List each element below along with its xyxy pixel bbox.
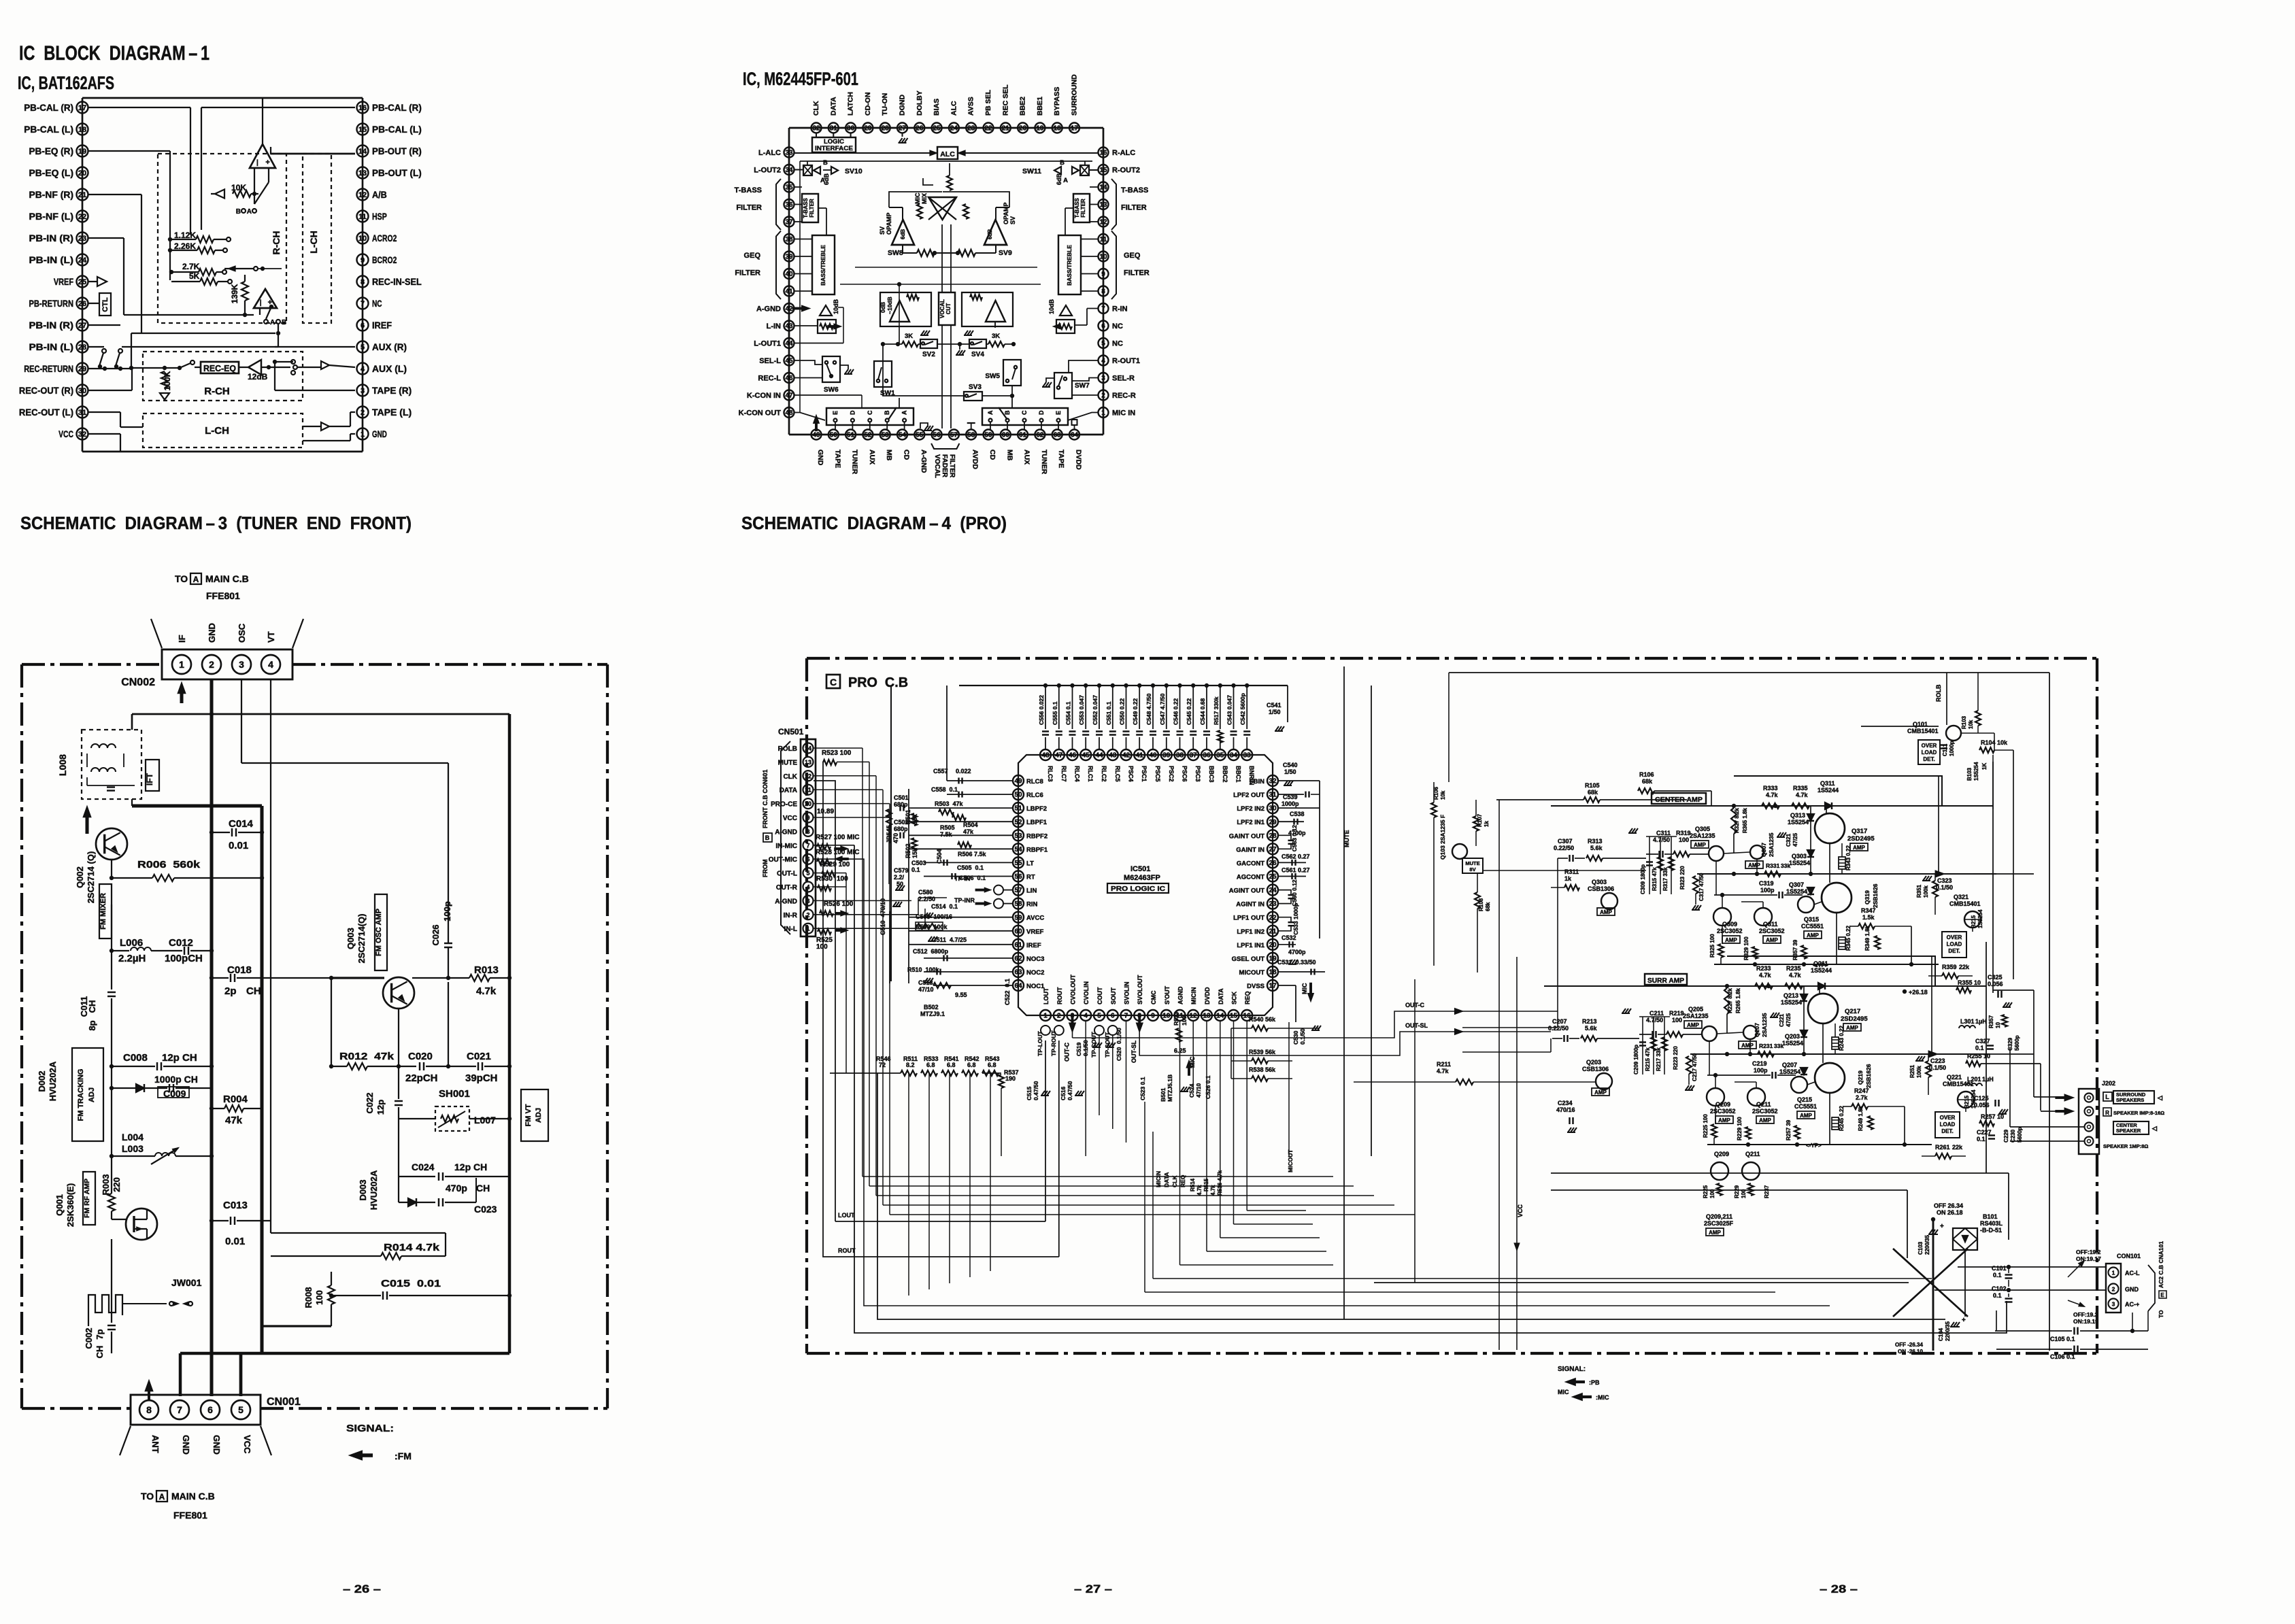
svg-text:5: 5 bbox=[1101, 340, 1105, 348]
svg-text:T-BASS: T-BASS bbox=[803, 198, 809, 218]
svg-text:B: B bbox=[236, 208, 241, 216]
svg-text:8: 8 bbox=[361, 278, 365, 286]
svg-text:R257 39: R257 39 bbox=[1786, 1119, 1792, 1140]
svg-text:FILTER: FILTER bbox=[809, 199, 815, 218]
svg-text:Q317: Q317 bbox=[1852, 828, 1867, 835]
svg-text:NC: NC bbox=[1112, 340, 1123, 348]
svg-text:IC BLOCK DIAGRAM – 1: IC BLOCK DIAGRAM – 1 bbox=[19, 42, 210, 65]
svg-text:R506 7.5k: R506 7.5k bbox=[958, 851, 987, 858]
svg-text:C538: C538 bbox=[1290, 811, 1305, 817]
svg-text:BBC1: BBC1 bbox=[1235, 766, 1242, 783]
svg-text:HVU202A: HVU202A bbox=[48, 1061, 58, 1101]
svg-text:52: 52 bbox=[864, 432, 872, 439]
svg-text:R514: R514 bbox=[1190, 1178, 1196, 1191]
svg-text:25: 25 bbox=[933, 125, 941, 133]
svg-text:R: R bbox=[2105, 1110, 2109, 1116]
svg-text:8p: 8p bbox=[87, 1020, 97, 1030]
svg-text:BBE1: BBE1 bbox=[1036, 97, 1044, 116]
svg-text:C311: C311 bbox=[1656, 830, 1671, 836]
svg-text:CSB1306: CSB1306 bbox=[1588, 885, 1614, 892]
svg-text:2SC3025F: 2SC3025F bbox=[1704, 1220, 1734, 1227]
svg-text:VCC: VCC bbox=[58, 428, 73, 439]
svg-text:IN-R: IN-R bbox=[783, 912, 797, 919]
svg-text:24: 24 bbox=[78, 256, 87, 265]
svg-text:19: 19 bbox=[78, 148, 86, 156]
svg-text:Q303: Q303 bbox=[1792, 853, 1807, 860]
svg-text:LPF2 OUT: LPF2 OUT bbox=[1233, 792, 1264, 799]
svg-text:DOLBY: DOLBY bbox=[916, 90, 924, 116]
svg-text:49: 49 bbox=[812, 432, 820, 439]
svg-text:49: 49 bbox=[1014, 778, 1022, 785]
svg-text:K-CON IN: K-CON IN bbox=[747, 392, 781, 400]
svg-text:VCC: VCC bbox=[1517, 1204, 1524, 1217]
svg-text:29: 29 bbox=[1269, 819, 1277, 826]
svg-text:PB-RETURN: PB-RETURN bbox=[29, 298, 73, 309]
svg-text:29: 29 bbox=[78, 365, 86, 373]
svg-text:40: 40 bbox=[1149, 752, 1157, 760]
svg-text:58: 58 bbox=[1014, 900, 1022, 908]
svg-text:R313: R313 bbox=[1588, 838, 1603, 845]
svg-text:20: 20 bbox=[78, 169, 86, 177]
svg-text:68k: 68k bbox=[1485, 902, 1491, 911]
svg-text:SVOLOUT: SVOLOUT bbox=[1137, 975, 1143, 1004]
svg-text:17: 17 bbox=[1269, 983, 1277, 990]
svg-text:5: 5 bbox=[238, 1404, 244, 1415]
svg-text:ADJ: ADJ bbox=[88, 1087, 96, 1102]
svg-text:SPEAKER 1MP:8Ω: SPEAKER 1MP:8Ω bbox=[2103, 1143, 2148, 1149]
svg-text:TAPE (R): TAPE (R) bbox=[372, 385, 412, 396]
svg-text:DET.: DET. bbox=[1941, 1128, 1953, 1134]
svg-text:50: 50 bbox=[897, 881, 903, 887]
svg-text:L: L bbox=[2105, 1094, 2109, 1100]
svg-text:R357 39: R357 39 bbox=[1792, 939, 1798, 960]
svg-text:1K: 1K bbox=[1981, 763, 1988, 770]
svg-text:Q209: Q209 bbox=[1714, 1151, 1729, 1157]
svg-text:LOUT: LOUT bbox=[838, 1212, 855, 1219]
svg-text:B215: B215 bbox=[1971, 915, 1977, 928]
svg-text:LPF1 IN2: LPF1 IN2 bbox=[1237, 928, 1264, 936]
svg-text:CON101: CON101 bbox=[2117, 1253, 2141, 1259]
svg-text:TP-ROUT: TP-ROUT bbox=[1050, 1030, 1057, 1056]
svg-text:5.6k: 5.6k bbox=[1585, 1025, 1598, 1032]
svg-text:Q103 2SA1235 F: Q103 2SA1235 F bbox=[1439, 815, 1446, 860]
svg-text:0.47/50: 0.47/50 bbox=[1033, 1081, 1039, 1100]
svg-text:PB-IN (L): PB-IN (L) bbox=[29, 254, 73, 265]
svg-text:RBPF2: RBPF2 bbox=[1026, 832, 1048, 840]
svg-text:– 28 –: – 28 – bbox=[1820, 1583, 1858, 1595]
svg-text:A: A bbox=[901, 410, 908, 415]
svg-text:C512 6800p: C512 6800p bbox=[913, 948, 949, 955]
svg-text:+26.18: +26.18 bbox=[1909, 989, 1928, 996]
svg-text:C230: C230 bbox=[2010, 1129, 2016, 1143]
svg-text:L-IN: L-IN bbox=[767, 322, 781, 331]
svg-text:CSB1306: CSB1306 bbox=[1582, 1066, 1609, 1072]
svg-text:C553 0.047: C553 0.047 bbox=[1078, 695, 1085, 725]
svg-text:CMB15401: CMB15401 bbox=[1907, 728, 1939, 734]
svg-text:C011: C011 bbox=[79, 996, 89, 1017]
svg-text:R325 100: R325 100 bbox=[1709, 934, 1715, 958]
svg-text:RS403L: RS403L bbox=[1980, 1220, 2003, 1227]
svg-text:35: 35 bbox=[785, 184, 793, 192]
svg-text:22: 22 bbox=[78, 213, 86, 221]
svg-text:C319: C319 bbox=[1759, 880, 1774, 887]
svg-text:57: 57 bbox=[950, 432, 958, 439]
svg-text:13: 13 bbox=[1203, 1013, 1211, 1020]
svg-text:C554 0.1: C554 0.1 bbox=[1065, 701, 1072, 725]
svg-text:6.8: 6.8 bbox=[947, 1062, 956, 1068]
svg-text:R359: R359 bbox=[1942, 964, 1957, 970]
svg-text:48: 48 bbox=[1041, 752, 1050, 760]
svg-text:AMP: AMP bbox=[1718, 1117, 1730, 1123]
svg-text:C106 0.1: C106 0.1 bbox=[2050, 1353, 2075, 1360]
svg-text:C014: C014 bbox=[229, 818, 254, 830]
svg-text:B: B bbox=[282, 319, 286, 326]
svg-text:L007: L007 bbox=[474, 1115, 496, 1126]
svg-text:Q321: Q321 bbox=[1954, 894, 1969, 900]
svg-text:R245 0.22: R245 0.22 bbox=[1839, 1106, 1845, 1131]
svg-text:100k: 100k bbox=[1916, 1066, 1922, 1078]
svg-text:10: 10 bbox=[1995, 1022, 2001, 1028]
svg-text:C505 0.1: C505 0.1 bbox=[957, 864, 984, 871]
svg-text:PSC6: PSC6 bbox=[1182, 766, 1188, 782]
svg-text:12: 12 bbox=[1099, 219, 1107, 226]
svg-text:GEQ: GEQ bbox=[744, 252, 761, 260]
svg-text:C307: C307 bbox=[1558, 838, 1573, 845]
svg-text:26: 26 bbox=[916, 125, 924, 133]
svg-text:0dB: 0dB bbox=[880, 302, 886, 313]
svg-text:63: 63 bbox=[1014, 969, 1022, 977]
svg-text:C556 0.022: C556 0.022 bbox=[1038, 695, 1045, 725]
svg-text:AVDD: AVDD bbox=[971, 450, 979, 469]
svg-text:ALC: ALC bbox=[950, 101, 958, 116]
svg-text:C008: C008 bbox=[123, 1052, 148, 1064]
svg-text:C317 47/50: C317 47/50 bbox=[1698, 873, 1705, 901]
svg-text:6dB: 6dB bbox=[987, 229, 993, 239]
svg-text:31: 31 bbox=[1269, 792, 1277, 799]
svg-text:GAINT OUT: GAINT OUT bbox=[1229, 832, 1264, 840]
svg-text:FM RF AMP: FM RF AMP bbox=[83, 1179, 91, 1218]
svg-text:6dB: 6dB bbox=[900, 229, 906, 239]
svg-text:6: 6 bbox=[1111, 1013, 1115, 1020]
svg-text:BIAS: BIAS bbox=[933, 99, 941, 116]
svg-text:MB: MB bbox=[1005, 450, 1014, 461]
svg-text:LIN: LIN bbox=[1026, 887, 1037, 895]
svg-text:C101: C101 bbox=[1992, 1265, 2007, 1272]
svg-text:HSP: HSP bbox=[372, 211, 387, 222]
svg-text:12: 12 bbox=[805, 773, 811, 779]
svg-text:FADER: FADER bbox=[941, 454, 948, 478]
svg-text:R108: R108 bbox=[1478, 898, 1484, 911]
svg-text:PRO-CE: PRO-CE bbox=[771, 801, 797, 809]
svg-text:31: 31 bbox=[78, 409, 86, 417]
svg-text:SW6: SW6 bbox=[824, 386, 839, 394]
svg-text:|: | bbox=[256, 159, 258, 167]
svg-text:100k: 100k bbox=[1923, 885, 1929, 898]
svg-text:C217 47/50: C217 47/50 bbox=[1692, 1053, 1698, 1081]
svg-text:C514 0.1: C514 0.1 bbox=[931, 903, 958, 910]
svg-text:A: A bbox=[820, 177, 825, 184]
svg-text:Q203: Q203 bbox=[1785, 1033, 1800, 1040]
svg-text:R505: R505 bbox=[940, 824, 955, 831]
svg-text:R351: R351 bbox=[1916, 884, 1922, 898]
svg-text:R233: R233 bbox=[1756, 965, 1771, 972]
svg-text:C219: C219 bbox=[1752, 1060, 1767, 1067]
svg-text:1S5244: 1S5244 bbox=[1817, 787, 1839, 794]
svg-text:33: 33 bbox=[785, 150, 793, 157]
svg-text:17: 17 bbox=[1071, 125, 1079, 133]
svg-text:SV3: SV3 bbox=[969, 384, 982, 391]
svg-text:GEQ: GEQ bbox=[1124, 252, 1141, 260]
svg-text:R502: R502 bbox=[905, 843, 911, 858]
svg-text:IN-MIC: IN-MIC bbox=[775, 843, 797, 850]
svg-text:CD: CD bbox=[988, 450, 996, 460]
svg-text:C541: C541 bbox=[1267, 702, 1281, 709]
svg-text:Q221: Q221 bbox=[1947, 1074, 1962, 1081]
svg-text:SW8: SW8 bbox=[888, 249, 903, 257]
svg-text:ON 26.18: ON 26.18 bbox=[1937, 1209, 1963, 1216]
svg-text:8V: 8V bbox=[1469, 866, 1475, 873]
svg-text:68k: 68k bbox=[1588, 789, 1598, 796]
svg-text:MIC: MIC bbox=[914, 192, 921, 204]
svg-text:CH: CH bbox=[95, 1346, 105, 1359]
svg-text:C223: C223 bbox=[1930, 1058, 1945, 1064]
svg-text:B215: B215 bbox=[1964, 1095, 1970, 1109]
svg-text:IREF: IREF bbox=[1026, 942, 1041, 949]
svg-text:45: 45 bbox=[785, 358, 793, 365]
svg-text:Q003: Q003 bbox=[346, 928, 356, 949]
svg-text:SURROUND: SURROUND bbox=[1071, 74, 1079, 116]
svg-text:12: 12 bbox=[1190, 1013, 1198, 1020]
svg-text:A: A bbox=[270, 319, 275, 326]
svg-text:2p: 2p bbox=[224, 985, 237, 997]
svg-text:A-GND: A-GND bbox=[920, 450, 928, 473]
svg-text:2: 2 bbox=[361, 409, 365, 417]
svg-text:0.056: 0.056 bbox=[1988, 981, 2003, 987]
svg-text:PB-CAL (L): PB-CAL (L) bbox=[24, 124, 73, 135]
svg-text:RT: RT bbox=[1026, 874, 1035, 881]
svg-text:D003: D003 bbox=[358, 1179, 368, 1200]
svg-text:~10dB: ~10dB bbox=[886, 297, 893, 314]
svg-text:AMP: AMP bbox=[1687, 1022, 1699, 1028]
svg-text:A/B: A/B bbox=[372, 189, 387, 200]
svg-text:ROUT: ROUT bbox=[838, 1247, 856, 1254]
svg-text:C543 0.047: C543 0.047 bbox=[1226, 695, 1233, 725]
svg-text:33: 33 bbox=[1243, 752, 1252, 760]
svg-text:2200/35: 2200/35 bbox=[1924, 1235, 1930, 1255]
svg-text:DVSS: DVSS bbox=[1247, 983, 1264, 990]
svg-text:47k: 47k bbox=[225, 1115, 243, 1126]
svg-text:57: 57 bbox=[1014, 887, 1022, 894]
svg-text:C552 0.047: C552 0.047 bbox=[1092, 695, 1099, 725]
svg-text:VOCAL: VOCAL bbox=[933, 454, 941, 478]
svg-text:7: 7 bbox=[361, 300, 365, 308]
svg-text:PB-IN (L): PB-IN (L) bbox=[29, 341, 73, 352]
svg-text:C524: C524 bbox=[1188, 1083, 1195, 1098]
svg-text:33k: 33k bbox=[1774, 1043, 1783, 1049]
svg-text:PB-IN (R): PB-IN (R) bbox=[29, 320, 73, 331]
svg-text:6dB: 6dB bbox=[1056, 173, 1062, 185]
svg-text:PB-EQ (R): PB-EQ (R) bbox=[29, 146, 73, 156]
svg-text:R527 100 MIC: R527 100 MIC bbox=[816, 834, 859, 841]
svg-text:60: 60 bbox=[1002, 432, 1010, 439]
svg-text:R343 0.22: R343 0.22 bbox=[1845, 845, 1852, 870]
svg-text:Q002: Q002 bbox=[75, 866, 85, 888]
svg-text:9: 9 bbox=[361, 256, 365, 265]
svg-text:4.7k: 4.7k bbox=[1759, 972, 1772, 979]
svg-text:SCHEMATIC DIAGRAM – 4 (PRO): SCHEMATIC DIAGRAM – 4 (PRO) bbox=[741, 513, 1007, 533]
svg-text:C502: C502 bbox=[894, 819, 909, 826]
svg-text:R365 1.8k: R365 1.8k bbox=[1742, 808, 1748, 833]
svg-text:2SA1235: 2SA1235 bbox=[1690, 832, 1715, 839]
svg-text:MAIN C.B: MAIN C.B bbox=[171, 1491, 215, 1502]
svg-text:LT: LT bbox=[1026, 860, 1034, 867]
svg-text:2SB1626: 2SB1626 bbox=[1865, 1064, 1872, 1088]
svg-text:C519: C519 bbox=[1075, 1042, 1082, 1056]
svg-text:VREF: VREF bbox=[54, 276, 73, 287]
svg-text:21: 21 bbox=[1269, 928, 1277, 935]
svg-text:T-BASS: T-BASS bbox=[1121, 186, 1148, 194]
svg-text:SV: SV bbox=[879, 226, 886, 235]
svg-text:R-CH: R-CH bbox=[271, 231, 282, 255]
svg-text:28: 28 bbox=[78, 343, 86, 352]
svg-text:0.1: 0.1 bbox=[1993, 1272, 2002, 1279]
svg-text:1S5254: 1S5254 bbox=[1786, 888, 1807, 895]
svg-text:L008: L008 bbox=[57, 754, 68, 776]
svg-text:GND: GND bbox=[181, 1435, 191, 1455]
svg-text:15: 15 bbox=[358, 126, 367, 134]
svg-text:4: 4 bbox=[1084, 1013, 1088, 1020]
svg-text:C549 0.22: C549 0.22 bbox=[1132, 698, 1139, 725]
svg-text:1S5254: 1S5254 bbox=[1973, 762, 1979, 781]
svg-text:FM MIXER: FM MIXER bbox=[99, 893, 107, 930]
svg-text:OUT-R: OUT-R bbox=[776, 884, 798, 892]
svg-text:16: 16 bbox=[358, 104, 367, 112]
svg-text:15: 15 bbox=[1230, 1013, 1238, 1020]
svg-text:CC5551: CC5551 bbox=[1801, 923, 1824, 930]
svg-text:IF: IF bbox=[177, 635, 187, 643]
svg-text:OFF -26.34: OFF -26.34 bbox=[1895, 1342, 1923, 1348]
svg-text:C551 0.1: C551 0.1 bbox=[1105, 701, 1112, 725]
svg-text:R103: R103 bbox=[1961, 715, 1967, 729]
svg-text:13: 13 bbox=[1099, 201, 1107, 209]
svg-text:OFF 26.34: OFF 26.34 bbox=[1934, 1202, 1963, 1209]
svg-text:CVOLIN: CVOLIN bbox=[1083, 981, 1090, 1004]
svg-text:OFF:19.2: OFF:19.2 bbox=[2076, 1249, 2101, 1255]
svg-text:R517 330k: R517 330k bbox=[1213, 696, 1220, 725]
svg-text:54: 54 bbox=[899, 432, 907, 439]
svg-text::PB: :PB bbox=[1589, 1379, 1600, 1386]
svg-text:47k: 47k bbox=[963, 828, 974, 835]
svg-text:SEL-R: SEL-R bbox=[1112, 375, 1135, 383]
svg-text:14: 14 bbox=[358, 148, 367, 156]
svg-text:NOC1: NOC1 bbox=[1026, 983, 1045, 990]
svg-text:PB-OUT (R): PB-OUT (R) bbox=[372, 146, 422, 156]
svg-text:AUX (L): AUX (L) bbox=[372, 363, 407, 374]
svg-text:RLC1: RLC1 bbox=[1087, 766, 1094, 782]
svg-text::MIC: :MIC bbox=[1596, 1394, 1609, 1401]
svg-text:Q213: Q213 bbox=[1783, 992, 1798, 999]
svg-text:TO: TO bbox=[141, 1491, 154, 1502]
svg-text:5: 5 bbox=[1097, 1013, 1101, 1020]
svg-text:18: 18 bbox=[1054, 125, 1062, 133]
svg-text:FILTER: FILTER bbox=[735, 269, 760, 277]
svg-text:0.1: 0.1 bbox=[1977, 1136, 1986, 1143]
svg-text:19: 19 bbox=[1036, 125, 1044, 133]
svg-text:SPEAKER IMP:8-16Ω: SPEAKER IMP:8-16Ω bbox=[2113, 1110, 2164, 1116]
svg-text:2SA1235: 2SA1235 bbox=[1683, 1013, 1709, 1019]
svg-text:M62463FP: M62463FP bbox=[1124, 874, 1160, 882]
svg-text:IC, BAT162AFS: IC, BAT162AFS bbox=[18, 73, 114, 93]
svg-text:22k: 22k bbox=[1959, 964, 1970, 970]
svg-text:1: 1 bbox=[2112, 1270, 2115, 1276]
svg-text:45: 45 bbox=[1082, 752, 1090, 760]
svg-text:R323 220: R323 220 bbox=[1679, 866, 1686, 890]
svg-text:CVOLOUT: CVOLOUT bbox=[1070, 974, 1077, 1004]
svg-text:R504: R504 bbox=[963, 822, 978, 828]
svg-text:FM VT: FM VT bbox=[524, 1104, 533, 1126]
svg-text:13: 13 bbox=[805, 759, 811, 766]
svg-text:C532: C532 bbox=[1281, 934, 1296, 941]
svg-text:OUT-L: OUT-L bbox=[777, 870, 797, 878]
svg-text:63: 63 bbox=[1054, 432, 1062, 439]
svg-text:HVU202A: HVU202A bbox=[369, 1170, 379, 1210]
svg-text:100: 100 bbox=[816, 943, 828, 951]
svg-text:AC-L: AC-L bbox=[2125, 1270, 2140, 1276]
svg-text:REC-EQ: REC-EQ bbox=[203, 364, 236, 373]
svg-text:Q315: Q315 bbox=[1804, 916, 1819, 923]
svg-text:R243 0.22: R243 0.22 bbox=[1839, 1026, 1845, 1051]
svg-text:56: 56 bbox=[933, 432, 941, 439]
svg-text:AVCC: AVCC bbox=[1026, 915, 1044, 922]
svg-text:AMP: AMP bbox=[1807, 932, 1819, 938]
svg-text:PB-NF (L): PB-NF (L) bbox=[29, 211, 73, 222]
svg-text:C558 0.1: C558 0.1 bbox=[931, 786, 958, 793]
svg-text:DGND: DGND bbox=[899, 95, 907, 116]
svg-text:FM TRACKING: FM TRACKING bbox=[77, 1069, 85, 1121]
svg-text:TAPE: TAPE bbox=[1057, 450, 1065, 468]
svg-text:PB-NF (R): PB-NF (R) bbox=[29, 189, 73, 200]
svg-text:BCRO2: BCRO2 bbox=[372, 254, 397, 265]
svg-text:C545 0.22: C545 0.22 bbox=[1186, 698, 1192, 725]
svg-text:5: 5 bbox=[806, 870, 809, 877]
svg-text:1µH: 1µH bbox=[1982, 1076, 1994, 1083]
svg-text:C546 0.22: C546 0.22 bbox=[1173, 698, 1179, 725]
svg-text:Q307: Q307 bbox=[1789, 881, 1804, 888]
svg-text:22: 22 bbox=[984, 125, 992, 133]
svg-text:14: 14 bbox=[805, 745, 811, 752]
svg-text:R008: R008 bbox=[303, 1287, 314, 1308]
svg-text:TP-LOUT: TP-LOUT bbox=[1037, 1030, 1043, 1056]
svg-text:R357: R357 bbox=[1988, 1015, 1994, 1028]
svg-text:LPF2 IN1: LPF2 IN1 bbox=[1237, 819, 1264, 826]
svg-text:PB-EQ (L): PB-EQ (L) bbox=[29, 167, 73, 178]
svg-text:R515: R515 bbox=[1203, 1178, 1209, 1191]
svg-text:BBE2: BBE2 bbox=[1019, 97, 1027, 116]
svg-text:47: 47 bbox=[1055, 752, 1063, 760]
svg-text:C563 0.12: C563 0.12 bbox=[1291, 825, 1298, 851]
svg-text:– 27 –: – 27 – bbox=[1074, 1583, 1112, 1595]
svg-text:R229 100: R229 100 bbox=[1737, 1117, 1743, 1140]
svg-text:72: 72 bbox=[879, 1062, 886, 1068]
svg-text:TAPE: TAPE bbox=[833, 450, 841, 468]
svg-text:1k: 1k bbox=[1484, 821, 1490, 827]
svg-text:AC-+: AC-+ bbox=[2125, 1301, 2139, 1308]
svg-text:R225 100: R225 100 bbox=[1703, 1114, 1709, 1138]
svg-text:Q319: Q319 bbox=[1864, 890, 1871, 904]
svg-text:COUT: COUT bbox=[1096, 987, 1103, 1004]
svg-text:8: 8 bbox=[806, 828, 809, 835]
svg-text:40: 40 bbox=[785, 271, 793, 278]
